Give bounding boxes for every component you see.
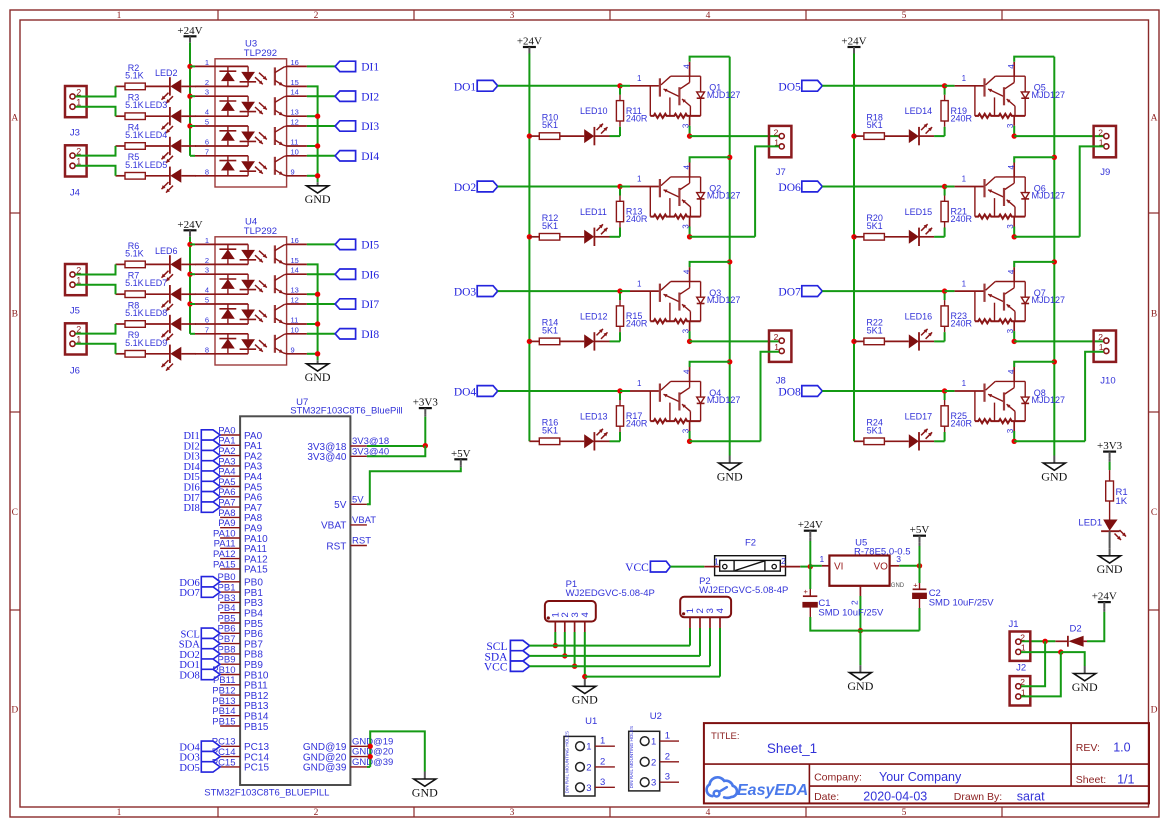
svg-text:J2: J2 — [1016, 663, 1026, 674]
svg-text:LED14: LED14 — [905, 106, 933, 116]
svg-text:DO8: DO8 — [179, 671, 199, 682]
svg-text:Sheet:: Sheet: — [1076, 774, 1106, 786]
svg-text:5K1: 5K1 — [867, 221, 883, 231]
svg-text:2: 2 — [850, 600, 860, 605]
svg-text:VCC: VCC — [625, 562, 649, 574]
svg-text:D: D — [11, 706, 18, 716]
svg-text:4: 4 — [715, 608, 726, 613]
svg-text:C: C — [1151, 508, 1157, 518]
svg-text:3V3@40: 3V3@40 — [307, 452, 347, 463]
svg-text:3: 3 — [665, 772, 670, 783]
svg-text:1: 1 — [637, 279, 642, 288]
svg-text:LED1: LED1 — [1078, 518, 1102, 529]
svg-text:DI6: DI6 — [361, 269, 379, 281]
svg-text:MJD127: MJD127 — [707, 395, 741, 405]
svg-text:240R: 240R — [951, 319, 973, 329]
svg-text:LED11: LED11 — [580, 207, 607, 217]
svg-text:Drawn By:: Drawn By: — [954, 791, 1002, 803]
svg-text:1: 1 — [637, 74, 642, 83]
svg-text:5.1K: 5.1K — [125, 338, 144, 348]
svg-text:+3V3: +3V3 — [413, 397, 439, 409]
svg-text:7: 7 — [205, 147, 209, 156]
svg-text:MJD127: MJD127 — [1032, 191, 1066, 201]
svg-text:5: 5 — [205, 296, 209, 305]
svg-text:5V: 5V — [352, 494, 364, 505]
svg-text:RST: RST — [326, 541, 346, 552]
svg-text:WJ2EDGVC-5.08-4P: WJ2EDGVC-5.08-4P — [566, 588, 655, 599]
svg-text:4: 4 — [706, 11, 711, 21]
svg-text:Date:: Date: — [814, 791, 839, 803]
svg-text:10: 10 — [291, 325, 299, 334]
svg-text:LED5: LED5 — [145, 160, 168, 170]
svg-text:TITLE:: TITLE: — [711, 731, 740, 742]
svg-text:LED2: LED2 — [155, 68, 178, 78]
svg-text:SMD 10uF/25V: SMD 10uF/25V — [818, 608, 884, 619]
svg-text:2: 2 — [651, 757, 656, 768]
svg-text:A: A — [11, 114, 18, 124]
svg-text:240R: 240R — [626, 214, 648, 224]
svg-text:9: 9 — [291, 345, 295, 354]
svg-text:8: 8 — [205, 167, 209, 176]
svg-text:+5V: +5V — [910, 524, 930, 536]
svg-text:MJD127: MJD127 — [707, 295, 741, 305]
svg-text:4: 4 — [682, 64, 691, 69]
svg-text:5.1K: 5.1K — [125, 278, 144, 288]
svg-text:LED6: LED6 — [155, 246, 178, 256]
svg-text:PC15: PC15 — [244, 763, 269, 774]
svg-text:J10: J10 — [1100, 376, 1115, 387]
svg-text:3: 3 — [896, 554, 901, 564]
svg-text:DO3: DO3 — [454, 287, 477, 299]
svg-text:5: 5 — [902, 11, 907, 21]
svg-text:2: 2 — [1020, 633, 1025, 643]
svg-text:5.1K: 5.1K — [125, 100, 144, 110]
svg-text:C: C — [12, 508, 18, 518]
svg-text:J7: J7 — [776, 167, 786, 178]
svg-text:16: 16 — [291, 236, 299, 245]
svg-text:EasyEDA: EasyEDA — [737, 782, 808, 799]
svg-text:1: 1 — [117, 11, 122, 21]
svg-text:4: 4 — [205, 286, 209, 295]
svg-text:DO6: DO6 — [778, 182, 801, 194]
svg-text:+: + — [804, 587, 809, 596]
svg-text:+24V: +24V — [177, 219, 202, 231]
svg-text:13: 13 — [291, 286, 299, 295]
svg-text:16: 16 — [291, 58, 299, 67]
svg-text:2020-04-03: 2020-04-03 — [863, 790, 927, 804]
svg-text:+: + — [913, 580, 918, 589]
svg-text:LED3: LED3 — [145, 100, 168, 110]
svg-text:DI2: DI2 — [361, 91, 379, 103]
svg-text:11: 11 — [291, 316, 299, 325]
svg-text:7: 7 — [205, 325, 209, 334]
svg-text:GND: GND — [1072, 680, 1098, 694]
svg-text:LED13: LED13 — [580, 411, 608, 421]
svg-text:VCC: VCC — [484, 662, 508, 674]
svg-text:LED12: LED12 — [580, 312, 608, 322]
svg-text:11: 11 — [291, 138, 299, 147]
svg-text:DI7: DI7 — [361, 299, 379, 311]
svg-text:TLP292: TLP292 — [244, 226, 277, 237]
svg-text:1.0: 1.0 — [1113, 741, 1130, 755]
svg-text:RST: RST — [352, 536, 371, 547]
svg-text:2: 2 — [1098, 332, 1103, 342]
svg-text:STM32F103C8T6_BluePill: STM32F103C8T6_BluePill — [290, 406, 402, 417]
svg-text:MJD127: MJD127 — [1032, 395, 1066, 405]
svg-text:GND@39: GND@39 — [352, 757, 393, 768]
svg-text:3: 3 — [681, 123, 690, 128]
svg-text:1K: 1K — [1116, 496, 1128, 507]
svg-text:3: 3 — [510, 808, 515, 818]
svg-text:3: 3 — [651, 778, 656, 789]
svg-text:2: 2 — [314, 11, 319, 21]
svg-text:3: 3 — [600, 777, 605, 788]
svg-text:3: 3 — [1006, 428, 1015, 433]
svg-text:Company:: Company: — [814, 772, 862, 784]
svg-text:5K1: 5K1 — [867, 326, 883, 336]
svg-text:5K1: 5K1 — [542, 221, 558, 231]
svg-text:LED16: LED16 — [905, 312, 933, 322]
svg-text:DO7: DO7 — [179, 588, 199, 599]
svg-text:LED9: LED9 — [145, 338, 168, 348]
svg-text:DO5: DO5 — [778, 81, 801, 93]
svg-text:5K1: 5K1 — [867, 425, 883, 435]
svg-text:DO1: DO1 — [454, 81, 477, 93]
svg-text:240R: 240R — [626, 113, 648, 123]
svg-text:1: 1 — [205, 58, 209, 67]
svg-text:2: 2 — [586, 762, 591, 773]
svg-text:3: 3 — [205, 266, 209, 275]
svg-text:4: 4 — [1007, 165, 1016, 170]
svg-text:1: 1 — [962, 379, 967, 388]
svg-text:1: 1 — [962, 279, 967, 288]
svg-text:4: 4 — [1007, 269, 1016, 274]
svg-text:240R: 240R — [626, 319, 648, 329]
svg-text:240R: 240R — [951, 214, 973, 224]
svg-text:8: 8 — [205, 345, 209, 354]
svg-text:3: 3 — [1006, 123, 1015, 128]
svg-text:LED15: LED15 — [905, 207, 933, 217]
svg-text:Sheet_1: Sheet_1 — [767, 741, 817, 756]
svg-text:DO4: DO4 — [454, 387, 477, 399]
svg-text:LED7: LED7 — [145, 278, 168, 288]
svg-text:9: 9 — [291, 167, 295, 176]
svg-text:2: 2 — [205, 256, 209, 265]
svg-text:5.1K: 5.1K — [125, 160, 144, 170]
svg-text:J8: J8 — [776, 376, 786, 387]
svg-text:14: 14 — [291, 266, 299, 275]
svg-text:240R: 240R — [626, 419, 648, 429]
svg-text:+24V: +24V — [517, 36, 542, 48]
svg-text:DIN RAIL MOUNTING HOLES: DIN RAIL MOUNTING HOLES — [565, 731, 570, 793]
svg-text:6: 6 — [205, 138, 209, 147]
svg-text:+24V: +24V — [1092, 591, 1117, 603]
svg-text:240R: 240R — [951, 419, 973, 429]
svg-text:5: 5 — [902, 808, 907, 818]
svg-text:DI8: DI8 — [183, 503, 199, 514]
svg-text:2: 2 — [600, 756, 605, 767]
svg-text:MJD127: MJD127 — [1032, 295, 1066, 305]
svg-text:DI1: DI1 — [361, 62, 379, 74]
svg-text:1/1: 1/1 — [1117, 773, 1134, 787]
svg-text:15: 15 — [291, 78, 299, 87]
svg-text:6: 6 — [205, 316, 209, 325]
svg-text:1: 1 — [665, 731, 670, 742]
svg-text:+3V3: +3V3 — [1097, 440, 1123, 452]
svg-text:GND: GND — [1097, 562, 1123, 576]
svg-text:VO: VO — [874, 562, 889, 573]
svg-text:STM32F103C8T6_BLUEPILL: STM32F103C8T6_BLUEPILL — [204, 788, 329, 799]
svg-text:5K1: 5K1 — [867, 120, 883, 130]
svg-text:3: 3 — [205, 88, 209, 97]
svg-text:2: 2 — [1098, 127, 1103, 137]
svg-text:4: 4 — [682, 165, 691, 170]
svg-text:4: 4 — [682, 369, 691, 374]
svg-text:F2: F2 — [745, 537, 756, 548]
svg-text:1: 1 — [714, 557, 719, 567]
svg-text:PA15: PA15 — [213, 559, 236, 570]
svg-text:2: 2 — [774, 127, 779, 137]
svg-text:3: 3 — [681, 428, 690, 433]
svg-text:3: 3 — [586, 783, 591, 794]
svg-text:LED17: LED17 — [905, 411, 933, 421]
svg-text:GND: GND — [305, 370, 331, 384]
svg-text:1: 1 — [651, 737, 656, 748]
svg-text:DO8: DO8 — [778, 387, 801, 399]
svg-text:4: 4 — [1007, 64, 1016, 69]
svg-text:3: 3 — [1006, 224, 1015, 229]
svg-text:U1: U1 — [585, 716, 597, 727]
svg-text:2: 2 — [205, 78, 209, 87]
svg-text:VBAT: VBAT — [321, 521, 346, 532]
svg-text:5.1K: 5.1K — [125, 308, 144, 318]
svg-text:5K1: 5K1 — [542, 425, 558, 435]
svg-text:DI5: DI5 — [361, 240, 379, 252]
svg-text:3: 3 — [1006, 328, 1015, 333]
svg-text:1: 1 — [637, 379, 642, 388]
svg-text:GND: GND — [305, 192, 331, 206]
svg-text:5V: 5V — [334, 500, 347, 511]
svg-text:PA15: PA15 — [244, 565, 268, 576]
svg-text:D: D — [1151, 706, 1158, 716]
svg-text:15: 15 — [291, 256, 299, 265]
svg-text:J9: J9 — [1100, 167, 1110, 178]
svg-text:1: 1 — [962, 74, 967, 83]
svg-text:12: 12 — [291, 118, 299, 127]
svg-text:Your Company: Your Company — [879, 770, 962, 784]
svg-text:DI4: DI4 — [361, 151, 379, 163]
svg-text:2: 2 — [774, 332, 779, 342]
svg-text:5: 5 — [205, 118, 209, 127]
svg-text:13: 13 — [291, 108, 299, 117]
svg-text:PB15: PB15 — [212, 716, 235, 727]
svg-text:4: 4 — [205, 108, 209, 117]
svg-text:4: 4 — [682, 269, 691, 274]
svg-text:J1: J1 — [1009, 619, 1019, 630]
svg-text:J6: J6 — [70, 365, 80, 376]
svg-text:10: 10 — [291, 147, 299, 156]
svg-text:GND: GND — [847, 679, 873, 693]
svg-text:LED8: LED8 — [145, 308, 168, 318]
svg-text:2: 2 — [781, 556, 786, 566]
svg-text:D2: D2 — [1070, 624, 1082, 635]
svg-text:GND: GND — [412, 785, 438, 799]
svg-text:MJD127: MJD127 — [707, 191, 741, 201]
svg-text:3: 3 — [681, 224, 690, 229]
svg-text:A: A — [1151, 114, 1158, 124]
svg-text:PB15: PB15 — [244, 722, 269, 733]
svg-text:TLP292: TLP292 — [244, 48, 277, 59]
svg-text:1: 1 — [600, 736, 605, 747]
svg-text:1: 1 — [205, 236, 209, 245]
svg-text:1: 1 — [637, 175, 642, 184]
svg-text:4: 4 — [706, 808, 711, 818]
svg-text:240R: 240R — [951, 113, 973, 123]
svg-text:2: 2 — [665, 751, 670, 762]
svg-text:5.1K: 5.1K — [125, 70, 144, 80]
svg-text:+5V: +5V — [451, 448, 471, 460]
svg-text:VI: VI — [834, 562, 843, 573]
svg-text:MJD127: MJD127 — [707, 90, 741, 100]
svg-text:DO5: DO5 — [179, 763, 199, 774]
svg-text:B: B — [12, 310, 18, 320]
svg-text:J5: J5 — [70, 306, 80, 317]
svg-text:MJD127: MJD127 — [1032, 90, 1066, 100]
svg-text:4: 4 — [580, 612, 591, 617]
svg-text:1: 1 — [586, 742, 591, 753]
svg-text:+24V: +24V — [841, 36, 866, 48]
svg-text:3: 3 — [681, 328, 690, 333]
svg-text:5K1: 5K1 — [542, 120, 558, 130]
svg-text:12: 12 — [291, 296, 299, 305]
svg-text:+24V: +24V — [177, 25, 202, 37]
svg-text:DO2: DO2 — [454, 182, 477, 194]
svg-text:U2: U2 — [650, 711, 662, 722]
svg-text:GND: GND — [717, 469, 743, 483]
svg-text:3: 3 — [510, 11, 515, 21]
svg-text:5K1: 5K1 — [542, 326, 558, 336]
svg-text:GND@39: GND@39 — [303, 763, 347, 774]
svg-text:DI8: DI8 — [361, 329, 379, 341]
svg-text:WJ2EDGVC-5.08-4P: WJ2EDGVC-5.08-4P — [699, 585, 788, 596]
svg-text:1: 1 — [820, 554, 825, 564]
svg-text:J4: J4 — [70, 187, 80, 198]
svg-text:1: 1 — [962, 175, 967, 184]
svg-text:LED10: LED10 — [580, 106, 608, 116]
svg-text:+24V: +24V — [798, 519, 823, 531]
svg-text:2: 2 — [314, 808, 319, 818]
svg-text:SMD 10uF/25V: SMD 10uF/25V — [929, 597, 995, 608]
svg-text:DI3: DI3 — [361, 121, 379, 133]
svg-text:GND: GND — [572, 693, 598, 707]
svg-text:J3: J3 — [70, 128, 80, 139]
svg-text:14: 14 — [291, 88, 299, 97]
svg-text:1: 1 — [117, 808, 122, 818]
svg-text:REV:: REV: — [1076, 742, 1100, 754]
svg-text:B: B — [1151, 310, 1157, 320]
svg-text:GND: GND — [1041, 469, 1067, 483]
svg-text:GND: GND — [891, 583, 905, 589]
svg-text:5.1K: 5.1K — [125, 130, 144, 140]
svg-text:5.1K: 5.1K — [125, 248, 144, 258]
svg-text:sarat: sarat — [1017, 790, 1045, 804]
svg-text:4: 4 — [1007, 369, 1016, 374]
svg-text:DO7: DO7 — [778, 287, 801, 299]
svg-text:LED4: LED4 — [145, 130, 168, 140]
svg-text:DIN RAIL MOUNTING HOLES: DIN RAIL MOUNTING HOLES — [629, 726, 634, 788]
svg-text:VBAT: VBAT — [352, 515, 376, 526]
